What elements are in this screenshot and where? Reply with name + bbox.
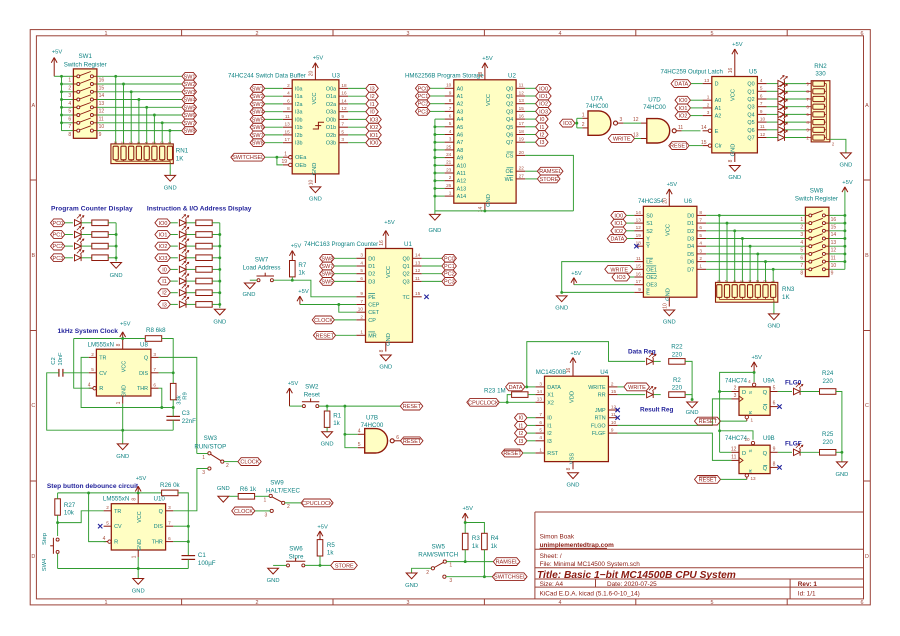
wire D column U9B: [719, 431, 721, 453]
global label IO2 U6: [611, 227, 627, 235]
svg-text:6: 6: [760, 93, 763, 98]
svg-text:GND: GND: [309, 196, 322, 202]
svg-text:220: 220: [672, 351, 683, 358]
svg-text:5: 5: [539, 428, 542, 433]
svg-text:74HC00: 74HC00: [643, 104, 666, 111]
junction: [137, 98, 140, 101]
svg-text:GND: GND: [767, 323, 780, 329]
svg-text:16: 16: [99, 78, 105, 84]
wire SW8 net: [97, 130, 182, 132]
svg-text:4: 4: [748, 379, 751, 384]
svg-text:Q: Q: [763, 451, 768, 457]
svg-text:RAM/SWITCH: RAM/SWITCH: [418, 552, 458, 559]
wire IO0 to U6: [626, 214, 634, 216]
wire LED to resistor: [186, 280, 195, 282]
wire SW7 to U3: [265, 134, 283, 136]
svg-text:GND: GND: [555, 305, 568, 311]
wire SW5 pin1 RAMSEL: [446, 561, 493, 563]
svg-text:13: 13: [704, 78, 710, 83]
svg-text:15: 15: [415, 291, 421, 296]
svg-text:2: 2: [256, 31, 259, 37]
svg-text:I1b: I1b: [295, 125, 303, 131]
svg-text:C: C: [31, 403, 35, 409]
power +5V U1: [383, 220, 395, 240]
switch SW7 Load Address: [243, 256, 281, 281]
svg-text:RN2: RN2: [814, 63, 827, 70]
svg-text:7: 7: [800, 263, 803, 269]
junction: [145, 106, 148, 109]
svg-text:5: 5: [773, 386, 776, 392]
wire R26 to C1 column: [178, 493, 188, 556]
wire U2 WE to STORE: [525, 178, 537, 180]
wire SW7 drop: [161, 123, 163, 146]
svg-text:R5: R5: [327, 542, 335, 549]
svg-text:14: 14: [701, 125, 707, 131]
svg-text:GND: GND: [386, 333, 392, 346]
svg-text:I1: I1: [540, 125, 545, 131]
wire LED to R25: [800, 451, 819, 453]
svg-text:2: 2: [287, 504, 290, 510]
resistor PC display: [92, 232, 108, 238]
svg-text:10nF: 10nF: [58, 352, 64, 366]
global label I0 display: [158, 266, 171, 274]
junction: [843, 229, 846, 232]
wire SW6 to U3: [265, 126, 283, 128]
svg-text:10: 10: [446, 83, 452, 88]
svg-text:SW5: SW5: [321, 279, 333, 285]
global label IO3 to U7A: [560, 119, 576, 127]
svg-text:A4: A4: [457, 117, 464, 123]
global label IO0 U5: [675, 96, 691, 104]
svg-text:D0: D0: [368, 256, 375, 262]
svg-text:DATA: DATA: [547, 385, 561, 391]
wire U6 D2 to SW8: [706, 230, 805, 232]
svg-text:6: 6: [68, 117, 71, 123]
switch SW9 HALT/EXEC: [264, 494, 290, 518]
global label PC3 display: [51, 254, 65, 262]
power +5V CEP CET: [297, 289, 309, 305]
junction: [122, 83, 125, 86]
svg-text:R: R: [99, 386, 103, 392]
svg-text:R23 1M: R23 1M: [484, 387, 506, 394]
global label IO0: [366, 139, 382, 147]
svg-text:IO2: IO2: [369, 125, 378, 131]
svg-text:3: 3: [202, 470, 205, 476]
wire R25 to ground: [836, 451, 842, 453]
svg-text:1K: 1K: [782, 294, 790, 301]
wire D wire U9A: [720, 391, 732, 393]
svg-text:22: 22: [519, 166, 525, 171]
svg-text:CV: CV: [99, 371, 107, 377]
resistor IO display: [196, 243, 212, 249]
wire R3 to RAMSEL row: [464, 550, 466, 562]
wire SW3 to U3: [265, 103, 283, 105]
svg-text:A11: A11: [457, 171, 466, 177]
junction: [60, 98, 63, 101]
wire LED to resistor: [82, 234, 92, 236]
svg-text:A2: A2: [715, 114, 722, 120]
capacitor C1 100uF: [182, 552, 216, 567]
resistor IO display: [196, 220, 212, 226]
svg-text:U3: U3: [332, 73, 340, 80]
global label CLOCK SW9: [232, 507, 255, 515]
power +5V SW5: [462, 506, 473, 522]
svg-text:27: 27: [519, 173, 525, 178]
svg-text:S1: S1: [646, 221, 653, 227]
svg-text:JMP: JMP: [595, 408, 606, 414]
svg-text:D4: D4: [687, 244, 694, 250]
svg-text:23: 23: [446, 167, 452, 172]
junction: [718, 390, 721, 393]
wire ground to SW6: [273, 564, 286, 566]
svg-text:I3: I3: [162, 302, 167, 308]
global label WRITE U6: [605, 265, 633, 273]
wire U6 D1 to SW8: [706, 222, 805, 224]
svg-text:2: 2: [426, 570, 429, 576]
svg-text:A10: A10: [457, 163, 467, 169]
svg-text:IO2: IO2: [539, 102, 548, 108]
wire SW4 net: [97, 99, 182, 101]
svg-text:2: 2: [256, 600, 259, 606]
svg-text:12: 12: [341, 106, 347, 111]
power +5V U9A: [751, 355, 762, 372]
svg-text:3: 3: [153, 352, 156, 357]
svg-text:5: 5: [800, 248, 803, 254]
power +5V SW1: [51, 50, 62, 77]
svg-text:D3: D3: [687, 237, 694, 243]
svg-text:1: 1: [800, 217, 803, 223]
svg-text:U1: U1: [404, 241, 412, 248]
junction: [843, 245, 846, 248]
svg-text:1: 1: [539, 447, 542, 452]
svg-text:Q: Q: [144, 355, 148, 361]
svg-text:220: 220: [823, 439, 834, 446]
global label IO1 U5: [675, 104, 691, 112]
resistor network RN1 1K: [111, 141, 189, 164]
wire R1 bottom: [326, 427, 328, 431]
wire IO0 to LED: [170, 222, 177, 224]
svg-text:U4: U4: [600, 369, 608, 376]
junction: [726, 222, 729, 225]
svg-text:PC0: PC0: [444, 256, 455, 262]
svg-text:TC: TC: [403, 295, 410, 301]
wire +5V rail to R8 and reset: [74, 338, 146, 340]
svg-text:15: 15: [611, 389, 617, 394]
resistor R22 220: [669, 344, 685, 365]
svg-text:R22: R22: [671, 344, 683, 351]
gate U7A 74HC00: [582, 96, 624, 136]
svg-text:+5V: +5V: [317, 524, 328, 530]
svg-text:11: 11: [285, 114, 290, 119]
svg-text:12: 12: [415, 268, 421, 273]
svg-text:16: 16: [519, 114, 525, 119]
svg-text:3: 3: [800, 232, 803, 238]
svg-text:19: 19: [281, 159, 287, 165]
svg-text:KiCad E.D.A. kicad (5.1.6-0-1: KiCad E.D.A. kicad (5.1.6-0-10_14): [540, 591, 640, 598]
wire A9 tie: [435, 157, 445, 159]
switch SW6 Store: [286, 546, 305, 567]
wire +5V to U9A preset: [753, 372, 755, 382]
junction: [172, 371, 175, 374]
wire LED to RN2: [785, 129, 806, 131]
LED output bit 4: [778, 106, 787, 118]
svg-text:R3: R3: [472, 535, 480, 542]
svg-text:10: 10: [309, 180, 315, 186]
svg-text:U7A: U7A: [591, 96, 604, 103]
power +5V R5: [317, 524, 328, 539]
svg-text:Q: Q: [763, 405, 768, 411]
wire PC display ground bus: [115, 223, 117, 261]
svg-text:PC2: PC2: [418, 102, 429, 108]
svg-text:U9A: U9A: [763, 379, 775, 385]
svg-text:File: Minimal MC14500 System.s: File: Minimal MC14500 System.sch: [540, 561, 641, 568]
wire A8 tie: [435, 149, 445, 151]
global label IO3 U6: [612, 273, 630, 281]
svg-text:5: 5: [360, 268, 363, 273]
LED PC3: [75, 250, 84, 262]
svg-text:9: 9: [760, 109, 763, 114]
wire LED to R2: [654, 394, 661, 396]
power +5V R7: [289, 244, 301, 261]
svg-text:D: D: [742, 451, 746, 457]
wire U3 output: [348, 134, 366, 136]
svg-text:17: 17: [636, 279, 642, 284]
svg-text:D: D: [31, 554, 35, 560]
wire U8 ground stem: [122, 404, 124, 444]
wire U3 output: [348, 87, 366, 89]
svg-text:10: 10: [611, 420, 617, 425]
wire SW5 pin3 SWITCHSEL: [446, 576, 492, 578]
global label CLOCK U1: [312, 316, 334, 324]
svg-text:8: 8: [800, 271, 803, 277]
ground U1: [379, 355, 392, 370]
global label CPUCLOCK SW9: [301, 499, 333, 507]
wire SW1 pin row: [62, 106, 74, 108]
wire IO1 to U6: [626, 222, 634, 224]
svg-text:CPUCLOCK: CPUCLOCK: [302, 501, 333, 507]
svg-text:+5V: +5V: [120, 321, 131, 327]
capacitor C2 10nF: [51, 352, 64, 377]
svg-text:1k: 1k: [298, 270, 305, 277]
svg-text:IO0: IO0: [369, 141, 378, 147]
svg-text:13: 13: [415, 260, 421, 265]
LED PC1: [75, 226, 84, 238]
svg-text:WRITE: WRITE: [610, 267, 628, 273]
global label SW6: [250, 123, 265, 131]
junction: [60, 75, 63, 78]
svg-text:U6: U6: [684, 198, 692, 205]
wire THR down: [159, 388, 162, 407]
global label IO1: [366, 131, 382, 139]
wire R4 to SWITCHSEL row: [483, 550, 485, 577]
wire PC3 to LED: [65, 257, 73, 259]
svg-text:1: 1: [131, 555, 137, 558]
wire DATA to Data Reg LED: [527, 342, 645, 387]
svg-text:9: 9: [773, 446, 776, 452]
svg-text:U5: U5: [749, 69, 757, 76]
wire I3 to U4: [527, 440, 535, 442]
svg-text:4: 4: [358, 428, 361, 434]
svg-text:PC3: PC3: [53, 256, 64, 262]
global label I2: [536, 131, 549, 139]
wire RN3 to ground: [773, 302, 775, 314]
svg-text:I3: I3: [370, 86, 375, 92]
svg-text:VDD: VDD: [569, 391, 575, 403]
global label DATA U4: [506, 383, 525, 391]
svg-text:GND: GND: [132, 589, 145, 595]
svg-text:U9B: U9B: [763, 436, 775, 442]
svg-text:8: 8: [287, 106, 290, 111]
junction: [483, 209, 486, 212]
svg-text:OE2: OE2: [646, 275, 657, 281]
svg-text:OE: OE: [506, 169, 514, 175]
svg-text:WRITE: WRITE: [628, 385, 646, 391]
svg-text:11: 11: [415, 276, 420, 281]
resistor R5 1k: [317, 540, 335, 557]
svg-text:1: 1: [284, 151, 287, 157]
svg-text:CP: CP: [368, 318, 376, 324]
svg-text:I2: I2: [370, 94, 375, 100]
no-connect U4 RTN: [615, 416, 619, 420]
wire U9A Q to FLG0 LED: [778, 391, 792, 393]
svg-text:RESET: RESET: [316, 333, 335, 339]
svg-text:D2: D2: [368, 272, 375, 278]
svg-text:9: 9: [638, 287, 641, 292]
svg-text:1: 1: [202, 455, 205, 461]
wire I0 to U4: [527, 417, 535, 419]
svg-text:GND: GND: [663, 319, 676, 325]
wire SW8 to U3: [265, 142, 283, 144]
svg-text:RESET: RESET: [403, 404, 422, 410]
svg-text:10k: 10k: [64, 510, 75, 517]
global label I1: [536, 123, 549, 131]
svg-text:SW2: SW2: [305, 384, 319, 391]
svg-text:Q7: Q7: [747, 136, 754, 142]
svg-text:VCC: VCC: [137, 511, 143, 522]
svg-text:+5V: +5V: [463, 506, 474, 512]
ground SW7: [244, 283, 255, 289]
svg-text:4: 4: [360, 260, 363, 265]
svg-text:6: 6: [800, 255, 803, 261]
svg-text:7: 7: [68, 124, 71, 130]
svg-text:LM555xN: LM555xN: [103, 496, 129, 503]
svg-text:3: 3: [68, 93, 71, 99]
global label RESET U5: [669, 142, 689, 150]
svg-text:IO1: IO1: [679, 106, 688, 112]
svg-text:13: 13: [99, 101, 105, 107]
svg-text:U8: U8: [140, 342, 148, 349]
svg-text:11: 11: [636, 256, 641, 261]
svg-text:GND: GND: [110, 273, 123, 279]
junction: [218, 268, 221, 271]
svg-text:1: 1: [449, 562, 452, 568]
svg-text:I2a: I2a: [295, 102, 303, 108]
wire U2 ground stem: [434, 211, 436, 215]
global label SW5: [182, 103, 197, 111]
svg-text:14: 14: [537, 389, 543, 394]
wire U6 D7 to SW8: [706, 268, 805, 270]
wire SW8 right pin: [829, 214, 845, 216]
svg-text:1k: 1k: [327, 550, 334, 557]
wire R23 to X1: [528, 394, 535, 396]
svg-text:SW6: SW6: [289, 546, 303, 553]
svg-text:9: 9: [831, 271, 834, 277]
LED output bit 5: [778, 114, 787, 126]
svg-text:6: 6: [773, 401, 776, 407]
svg-text:1: 1: [116, 401, 122, 404]
svg-text:12: 12: [636, 225, 642, 230]
wire resistor to bus: [212, 245, 220, 247]
svg-text:S2: S2: [646, 229, 653, 235]
svg-text:VCC: VCC: [666, 224, 672, 236]
global label SW4: [182, 96, 197, 104]
svg-text:RAMSEL: RAMSEL: [539, 169, 562, 175]
global label RESET U9A: [695, 417, 721, 425]
svg-text:Q0: Q0: [506, 86, 513, 92]
IC U5 74HC259 Output Latch: [661, 68, 767, 163]
svg-text:9: 9: [449, 90, 452, 95]
junction: [506, 401, 509, 404]
svg-text:14: 14: [415, 253, 421, 258]
svg-text:D: D: [865, 554, 869, 560]
wire U2 Q4: [525, 118, 535, 120]
junction: [433, 179, 436, 182]
junction: [433, 125, 436, 128]
wire bottom rail U10: [58, 568, 189, 570]
global label I2 display: [158, 289, 171, 297]
global label IO1: [536, 92, 552, 100]
resistor R24 220: [820, 370, 836, 394]
svg-text:74HC163 Program Counter: 74HC163 Program Counter: [304, 241, 378, 248]
wire TR to THR rail: [81, 357, 162, 407]
svg-text:TR: TR: [99, 355, 106, 361]
svg-text:7: 7: [360, 299, 363, 304]
svg-text:SW3: SW3: [204, 435, 218, 442]
svg-text:Q4: Q4: [506, 117, 513, 123]
wire IO2 to LED: [170, 245, 177, 247]
svg-text:CV: CV: [114, 524, 122, 530]
svg-text:CEP: CEP: [368, 303, 379, 309]
resistor R1 1k: [324, 411, 341, 427]
junction: [218, 291, 221, 294]
wire DATA to U6: [627, 238, 634, 240]
svg-text:10: 10: [831, 263, 837, 269]
wire SW2 net: [97, 83, 182, 85]
junction: [433, 172, 436, 175]
global label SW2: [250, 92, 265, 100]
gate U7B 74HC00: [358, 415, 401, 454]
wire U5 Q1 to LED: [767, 90, 778, 92]
svg-text:16: 16: [379, 240, 385, 246]
svg-text:Store: Store: [289, 554, 304, 561]
global label IO0: [536, 84, 552, 92]
wire resistor to bus: [212, 280, 220, 282]
svg-text:R1: R1: [333, 413, 341, 420]
svg-text:Q3: Q3: [506, 109, 513, 115]
resistor R3 1k: [462, 533, 480, 550]
svg-text:SW2: SW2: [184, 82, 196, 88]
ground U10: [132, 579, 145, 595]
svg-text:O1a: O1a: [326, 94, 336, 100]
svg-text:11: 11: [519, 83, 524, 88]
ground U6 E: [555, 296, 568, 312]
svg-text:U7D: U7D: [648, 97, 661, 104]
global label I2: [366, 92, 379, 100]
svg-text:Step: Step: [42, 533, 48, 545]
svg-text:VCC: VCC: [122, 361, 128, 372]
svg-text:6: 6: [449, 114, 452, 119]
svg-text:RESET: RESET: [403, 439, 422, 445]
